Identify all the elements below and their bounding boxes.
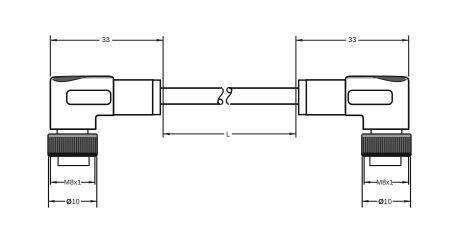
- left coupling face step: [58, 157, 89, 166]
- cable bottom line left segment: [160, 103, 219, 105]
- left neck lines: [57, 130, 88, 134]
- extension line mid-left: [162, 36, 164, 137]
- left gland tip: [153, 80, 161, 115]
- left connector body: [50, 76, 113, 129]
- right neck lines: [371, 130, 402, 134]
- cable bottom line right segment: [230, 103, 299, 105]
- dimension 33 left line: [50, 39, 163, 41]
- right cable gland: [306, 80, 345, 115]
- thread label M8x1 left arrows: [50, 181, 95, 184]
- dimension L line: [163, 133, 296, 135]
- left label window: [67, 90, 111, 104]
- cable break squiggle right: [226, 87, 231, 104]
- thread label M8x1 right arrows: [364, 181, 409, 184]
- dimension 33 left extension line A: [49, 35, 51, 76]
- dimension 33 right arrows: [296, 39, 409, 42]
- dimension 33 left arrows: [50, 39, 163, 42]
- right connector top inner line: [347, 77, 379, 79]
- svg-text:Ø10: Ø10: [66, 197, 80, 206]
- thread label M8x1 left line: [50, 181, 95, 183]
- thread label M8x1 right line: [364, 181, 409, 183]
- right connector body: [345, 76, 408, 129]
- left connector top inner line: [81, 77, 113, 79]
- cable break squiggle left: [218, 87, 223, 104]
- svg-text:M8x1: M8x1: [64, 180, 81, 187]
- left connector top shading: [52, 76, 87, 81]
- svg-text:Ø10: Ø10: [378, 197, 392, 206]
- svg-text:L: L: [226, 130, 230, 139]
- right gland tip: [299, 80, 307, 115]
- cable top line left segment: [160, 87, 221, 89]
- extension line mid-right: [295, 36, 297, 137]
- right coupling side lines outer: [362, 157, 410, 208]
- svg-text:M8x1: M8x1: [376, 180, 393, 187]
- diameter label 10 left arrows: [49, 200, 97, 203]
- cable top line right segment: [229, 87, 299, 89]
- right knurled nut: [362, 134, 411, 156]
- left connector top shading lower curve: [53, 77, 87, 81]
- right coupling side lines inner: [364, 157, 409, 185]
- left cable gland: [114, 80, 153, 115]
- svg-text:33: 33: [348, 35, 356, 44]
- left coupling side lines inner: [50, 157, 95, 185]
- diameter label 10 right line: [362, 200, 410, 202]
- right connector top shading lower curve: [373, 77, 407, 81]
- left coupling side lines outer: [49, 157, 97, 208]
- dimension 33 right line: [296, 39, 409, 41]
- right coupling face step: [370, 157, 401, 166]
- left knurled nut: [48, 134, 97, 156]
- diameter label 10 left line: [49, 200, 97, 202]
- diameter label 10 right arrows: [362, 200, 410, 203]
- svg-text:33: 33: [102, 35, 110, 44]
- right connector top shading: [372, 76, 407, 81]
- right label window: [348, 90, 392, 104]
- dimension L arrows: [163, 133, 296, 136]
- dimension 33 right extension line A: [408, 35, 410, 76]
